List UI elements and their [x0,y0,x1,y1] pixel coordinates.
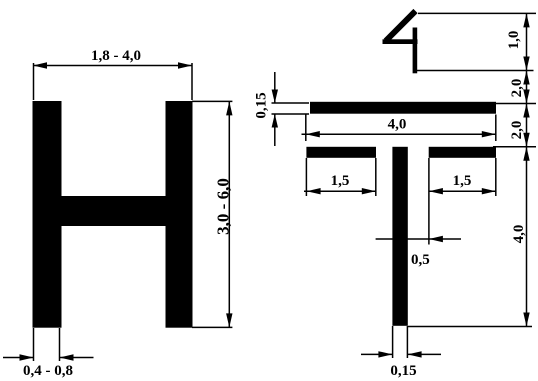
svg-text:4,0: 4,0 [511,225,527,244]
svg-text:1,5: 1,5 [331,173,350,189]
svg-text:0,15: 0,15 [254,92,270,118]
svg-text:4,0: 4,0 [388,117,407,133]
svg-text:0,4 - 0,8: 0,4 - 0,8 [23,363,73,379]
svg-text:2,0: 2,0 [509,121,525,140]
svg-text:0,5: 0,5 [411,252,430,268]
svg-text:3,0 - 6,0: 3,0 - 6,0 [214,178,233,235]
svg-text:2,0: 2,0 [509,79,525,98]
svg-text:1,5: 1,5 [453,173,472,189]
svg-text:1,8 - 4,0: 1,8 - 4,0 [91,48,141,64]
svg-text:1,0: 1,0 [506,31,522,50]
svg-text:0,15: 0,15 [390,363,416,379]
